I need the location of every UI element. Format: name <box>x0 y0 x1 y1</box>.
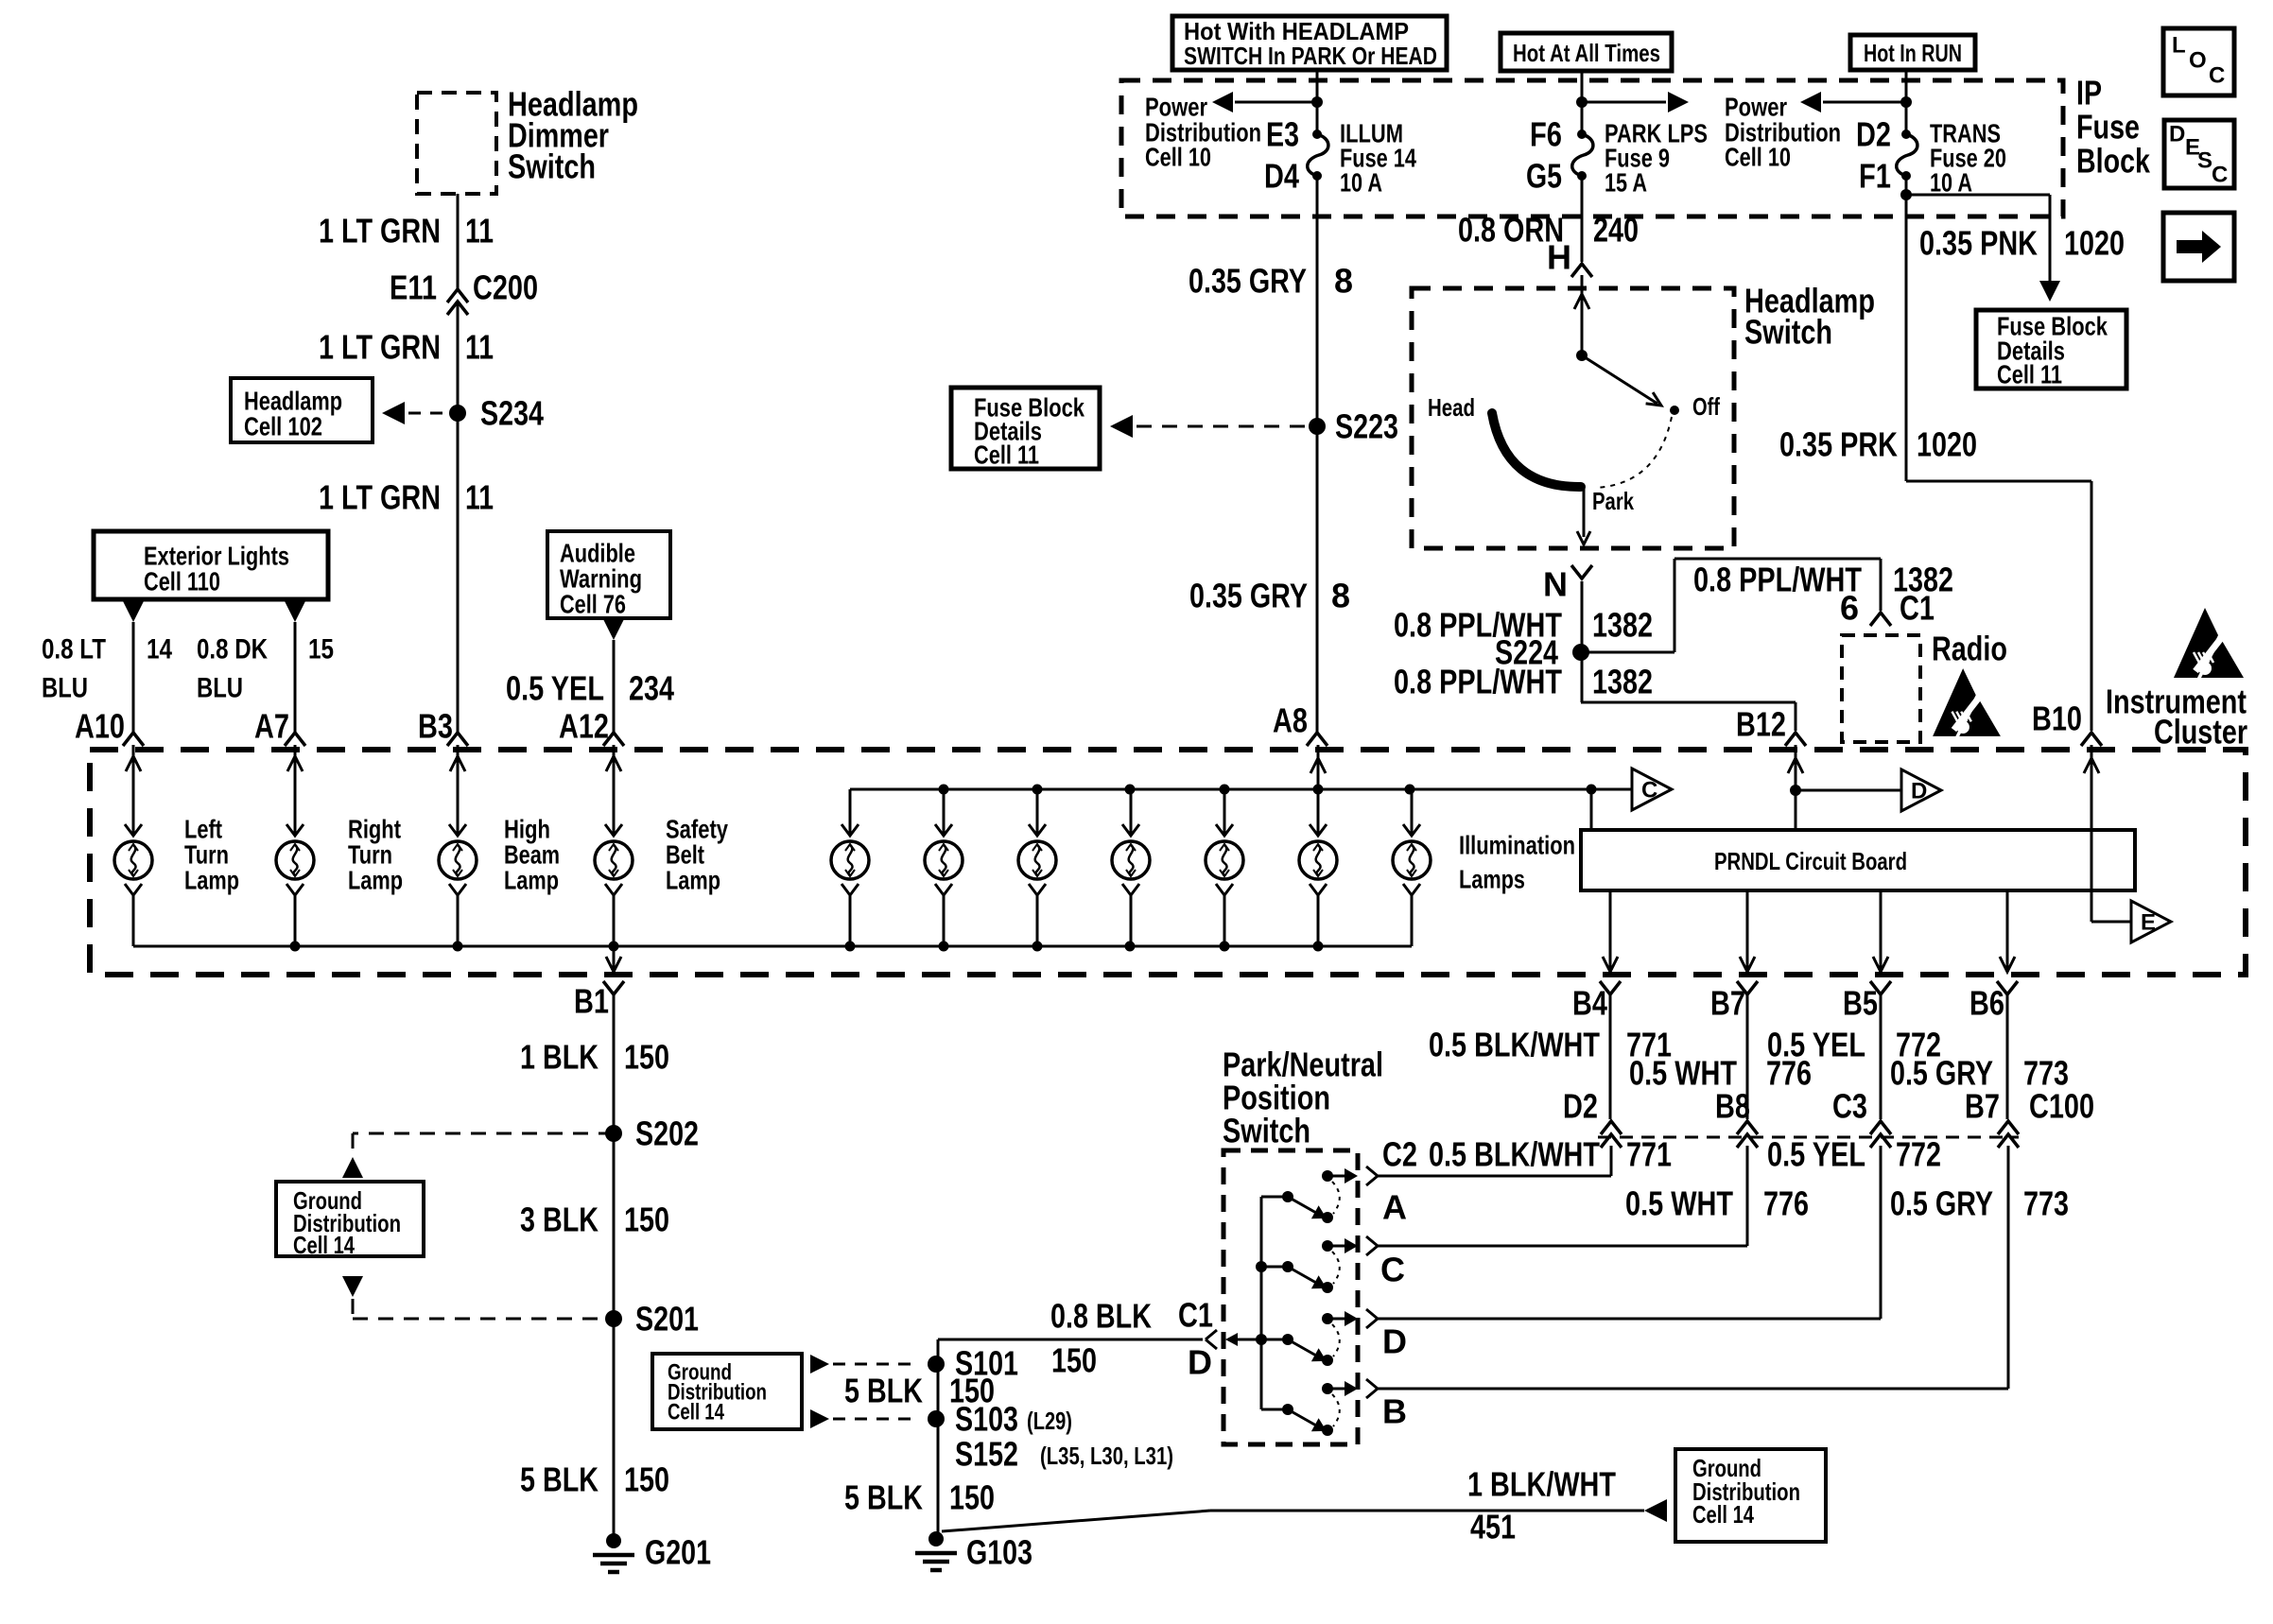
svg-text:8: 8 <box>1331 577 1350 615</box>
svg-text:Cell 10: Cell 10 <box>1145 143 1211 172</box>
svg-text:11: 11 <box>465 212 494 251</box>
svg-text:Fuse: Fuse <box>2076 108 2140 147</box>
svg-text:0.5 YEL: 0.5 YEL <box>1767 1135 1865 1174</box>
svg-text:5 BLK: 5 BLK <box>844 1478 923 1517</box>
svg-text:C200: C200 <box>473 268 538 307</box>
svg-text:0.5 WHT: 0.5 WHT <box>1625 1184 1733 1223</box>
svg-text:S103: S103 <box>955 1400 1018 1439</box>
svg-text:8: 8 <box>1334 262 1353 301</box>
svg-text:0.35 GRY: 0.35 GRY <box>1189 577 1308 615</box>
svg-text:150: 150 <box>624 1038 669 1077</box>
svg-text:0.8 BLK: 0.8 BLK <box>1050 1297 1152 1336</box>
svg-text:11: 11 <box>465 478 494 517</box>
svg-text:1 LT GRN: 1 LT GRN <box>319 478 441 517</box>
svg-text:S223: S223 <box>1335 407 1398 446</box>
svg-text:234: 234 <box>629 669 674 708</box>
svg-text:0.5 GRY: 0.5 GRY <box>1890 1184 1993 1223</box>
svg-text:0.35 PNK: 0.35 PNK <box>1919 224 2038 263</box>
svg-text:1 LT GRN: 1 LT GRN <box>319 212 441 251</box>
svg-text:C1: C1 <box>1900 589 1935 628</box>
svg-text:F6: F6 <box>1530 115 1562 154</box>
svg-text:771: 771 <box>1626 1135 1672 1174</box>
svg-text:776: 776 <box>1763 1184 1809 1223</box>
svg-text:H: H <box>1547 238 1571 277</box>
svg-text:776: 776 <box>1766 1054 1812 1093</box>
svg-text:Hot At All Times: Hot At All Times <box>1513 39 1660 67</box>
svg-text:Illumination: Illumination <box>1459 831 1575 860</box>
svg-text:(L35, L30, L31): (L35, L30, L31) <box>1040 1442 1173 1470</box>
svg-text:1 BLK: 1 BLK <box>520 1038 599 1077</box>
svg-text:(L29): (L29) <box>1027 1407 1072 1435</box>
svg-text:A10: A10 <box>75 707 125 746</box>
svg-text:11: 11 <box>465 328 494 367</box>
svg-text:Switch: Switch <box>1223 1112 1310 1150</box>
svg-text:Radio: Radio <box>1932 630 2007 668</box>
svg-text:B6: B6 <box>1969 984 2004 1023</box>
svg-text:451: 451 <box>1470 1508 1516 1546</box>
svg-text:1382: 1382 <box>1592 663 1653 701</box>
svg-text:O: O <box>2189 48 2207 74</box>
svg-text:Cell 14: Cell 14 <box>1692 1500 1754 1529</box>
svg-text:Cluster: Cluster <box>2154 713 2247 752</box>
svg-text:B4: B4 <box>1572 984 1607 1023</box>
svg-text:B10: B10 <box>2032 700 2082 738</box>
svg-text:Lamp: Lamp <box>348 866 403 895</box>
svg-text:C: C <box>2209 63 2225 89</box>
svg-text:C: C <box>1641 778 1657 803</box>
svg-text:1020: 1020 <box>2064 224 2125 263</box>
svg-text:0.5 BLK/WHT: 0.5 BLK/WHT <box>1429 1135 1600 1174</box>
svg-text:Cell 76: Cell 76 <box>560 590 626 619</box>
svg-text:E3: E3 <box>1266 115 1299 154</box>
svg-text:150: 150 <box>1051 1341 1097 1380</box>
svg-text:Cell 10: Cell 10 <box>1725 143 1791 172</box>
svg-text:D2: D2 <box>1563 1087 1598 1126</box>
svg-text:Park: Park <box>1592 487 1634 515</box>
svg-text:150: 150 <box>949 1478 995 1517</box>
svg-text:D: D <box>1382 1322 1407 1361</box>
svg-text:C1: C1 <box>1178 1296 1213 1335</box>
svg-text:1 BLK/WHT: 1 BLK/WHT <box>1467 1465 1616 1504</box>
svg-text:B7: B7 <box>1965 1087 2000 1126</box>
svg-text:D: D <box>1188 1343 1212 1382</box>
svg-text:B8: B8 <box>1715 1087 1750 1126</box>
svg-text:Cell 11: Cell 11 <box>974 441 1039 470</box>
svg-text:E11: E11 <box>390 268 437 307</box>
svg-text:0.35 PRK: 0.35 PRK <box>1779 425 1898 464</box>
svg-text:1020: 1020 <box>1917 425 1977 464</box>
svg-text:C3: C3 <box>1832 1087 1867 1126</box>
svg-text:3 BLK: 3 BLK <box>520 1201 599 1239</box>
svg-text:Lamp: Lamp <box>504 866 559 895</box>
svg-text:Head: Head <box>1428 393 1475 422</box>
svg-text:B5: B5 <box>1843 984 1878 1023</box>
svg-text:0.5 BLK/WHT: 0.5 BLK/WHT <box>1429 1026 1600 1064</box>
svg-text:B: B <box>1382 1392 1407 1431</box>
svg-text:5 BLK: 5 BLK <box>844 1372 923 1410</box>
svg-text:C2: C2 <box>1382 1135 1417 1174</box>
svg-text:S152: S152 <box>955 1435 1018 1474</box>
svg-text:14: 14 <box>147 634 172 665</box>
svg-text:G103: G103 <box>966 1533 1032 1572</box>
svg-text:E: E <box>2141 910 2156 936</box>
svg-text:F1: F1 <box>1859 157 1891 196</box>
svg-text:Cell 14: Cell 14 <box>668 1400 724 1425</box>
svg-text:240: 240 <box>1593 211 1639 250</box>
svg-text:SWITCH In PARK Or HEAD: SWITCH In PARK Or HEAD <box>1184 42 1437 70</box>
svg-text:Hot In RUN: Hot In RUN <box>1864 39 1962 67</box>
svg-text:D: D <box>2169 122 2185 147</box>
svg-text:D: D <box>1911 779 1927 804</box>
svg-text:772: 772 <box>1896 1135 1941 1174</box>
svg-text:150: 150 <box>624 1460 669 1499</box>
svg-text:Lamp: Lamp <box>666 866 720 895</box>
svg-text:Lamp: Lamp <box>184 866 239 895</box>
svg-text:BLU: BLU <box>42 673 88 704</box>
svg-text:B12: B12 <box>1736 705 1786 744</box>
svg-text:S: S <box>2197 148 2212 174</box>
svg-text:L: L <box>2172 33 2186 59</box>
svg-text:A8: A8 <box>1273 701 1308 740</box>
svg-text:Cell 11: Cell 11 <box>1997 360 2062 389</box>
svg-text:C100: C100 <box>2029 1087 2094 1126</box>
svg-text:0.8 DK: 0.8 DK <box>197 634 268 665</box>
svg-text:6: 6 <box>1840 589 1859 628</box>
svg-text:Cell 14: Cell 14 <box>293 1231 355 1259</box>
svg-text:0.8 PPL/WHT: 0.8 PPL/WHT <box>1693 561 1862 599</box>
svg-text:A12: A12 <box>559 707 609 746</box>
svg-text:A: A <box>1382 1188 1407 1227</box>
svg-text:Cell 102: Cell 102 <box>244 412 322 441</box>
svg-text:IP: IP <box>2076 74 2102 112</box>
svg-text:Block: Block <box>2076 142 2151 181</box>
svg-text:0.8 PPL/WHT: 0.8 PPL/WHT <box>1394 663 1562 701</box>
svg-text:S202: S202 <box>635 1114 699 1153</box>
svg-text:10 A: 10 A <box>1340 168 1382 198</box>
svg-text:C: C <box>1380 1251 1405 1289</box>
svg-text:0.35 GRY: 0.35 GRY <box>1189 262 1307 301</box>
svg-text:0.8 LT: 0.8 LT <box>42 634 106 665</box>
svg-text:Lamps: Lamps <box>1459 865 1525 894</box>
svg-text:S234: S234 <box>480 394 544 433</box>
svg-text:B1: B1 <box>574 982 609 1021</box>
svg-text:Off: Off <box>1692 392 1720 421</box>
svg-text:15: 15 <box>308 634 334 665</box>
svg-text:1 LT GRN: 1 LT GRN <box>319 328 441 367</box>
svg-text:N: N <box>1543 565 1568 604</box>
svg-text:Switch: Switch <box>1744 313 1832 352</box>
svg-text:C: C <box>2212 163 2228 188</box>
svg-text:G5: G5 <box>1526 157 1562 196</box>
svg-text:BLU: BLU <box>197 673 243 704</box>
svg-text:Switch: Switch <box>508 147 596 186</box>
svg-text:S201: S201 <box>635 1300 699 1339</box>
svg-text:D4: D4 <box>1264 157 1299 196</box>
svg-text:150: 150 <box>624 1201 669 1239</box>
svg-text:1382: 1382 <box>1592 606 1653 645</box>
svg-text:0.5 YEL: 0.5 YEL <box>506 669 604 708</box>
svg-text:10 A: 10 A <box>1930 168 1972 198</box>
svg-text:15 A: 15 A <box>1605 168 1647 198</box>
svg-text:B3: B3 <box>418 707 453 746</box>
svg-text:773: 773 <box>2023 1184 2069 1223</box>
svg-text:A7: A7 <box>254 707 289 746</box>
svg-text:B7: B7 <box>1710 984 1745 1023</box>
svg-text:5 BLK: 5 BLK <box>520 1460 599 1499</box>
svg-text:Cell 110: Cell 110 <box>144 567 220 596</box>
svg-text:G201: G201 <box>645 1533 711 1572</box>
svg-text:D2: D2 <box>1856 115 1891 154</box>
svg-text:PRNDL Circuit Board: PRNDL Circuit Board <box>1714 847 1907 875</box>
